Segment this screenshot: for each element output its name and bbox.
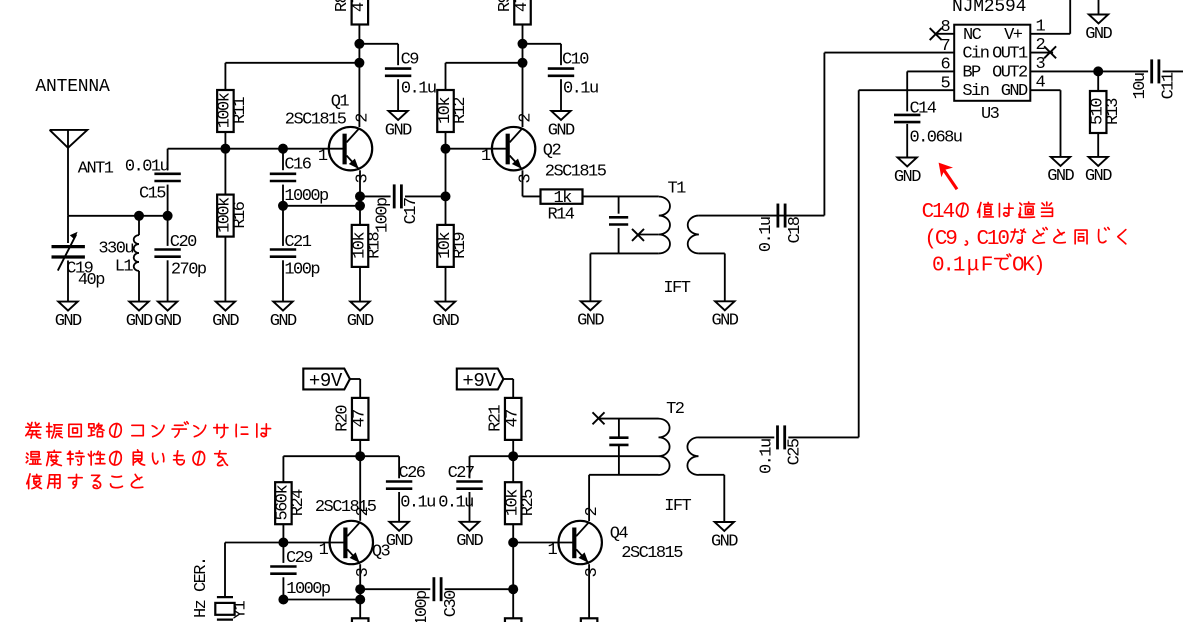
svg-text:1000p: 1000p: [284, 187, 329, 206]
svg-text:GND: GND: [270, 312, 297, 331]
svg-text:2: 2: [1035, 36, 1044, 55]
svg-text:μ: μ: [967, 254, 980, 277]
svg-text:R20: R20: [334, 405, 353, 432]
svg-text:0.1u: 0.1u: [757, 217, 776, 252]
svg-text:GND: GND: [385, 121, 412, 140]
svg-text:C10: C10: [562, 50, 589, 69]
svg-text:L1: L1: [115, 257, 134, 276]
svg-text:GND: GND: [712, 312, 739, 331]
svg-text:NJM2594: NJM2594: [952, 0, 1026, 17]
svg-text:3: 3: [583, 567, 602, 577]
svg-text:GND: GND: [154, 312, 181, 331]
svg-text:+9V: +9V: [462, 370, 496, 392]
svg-text:T1: T1: [668, 179, 687, 198]
svg-text:0.1u: 0.1u: [563, 79, 598, 98]
svg-text:C20: C20: [170, 233, 197, 252]
svg-text:8: 8: [940, 18, 950, 37]
svg-text:47: 47: [504, 410, 523, 428]
svg-text:GND: GND: [55, 312, 82, 331]
svg-text:BP: BP: [962, 63, 981, 82]
svg-text:1: 1: [953, 254, 966, 277]
svg-text:0.1u: 0.1u: [438, 493, 473, 512]
svg-text:Hz CER.: Hz CER.: [192, 557, 211, 618]
svg-text:1: 1: [1035, 17, 1045, 36]
svg-text:1: 1: [318, 147, 328, 166]
svg-text:Y1: Y1: [232, 601, 251, 620]
svg-text:IFT: IFT: [664, 497, 691, 516]
svg-text:GND: GND: [1085, 167, 1112, 186]
svg-text:4: 4: [1035, 74, 1045, 93]
svg-text:GND: GND: [548, 121, 575, 140]
svg-text:100p: 100p: [413, 590, 432, 622]
svg-text:GND: GND: [126, 312, 153, 331]
svg-text:C25: C25: [786, 438, 805, 465]
svg-text:U3: U3: [981, 105, 1000, 124]
svg-text:C11: C11: [1160, 72, 1179, 99]
svg-text:Q4: Q4: [610, 524, 629, 543]
svg-text:Q1: Q1: [331, 92, 350, 111]
svg-text:10u: 10u: [1131, 73, 1150, 99]
svg-text:GND: GND: [1047, 167, 1074, 186]
svg-text:IFT: IFT: [663, 279, 690, 298]
svg-text:0.1u: 0.1u: [758, 439, 777, 474]
svg-text:F: F: [981, 254, 994, 277]
svg-text:0.1u: 0.1u: [400, 493, 435, 512]
svg-text:1: 1: [481, 147, 491, 166]
svg-text:Q2: Q2: [543, 142, 561, 161]
svg-text:C9: C9: [401, 50, 420, 69]
svg-text:R12: R12: [451, 98, 470, 124]
svg-text:GND: GND: [432, 312, 459, 331]
svg-text:3: 3: [353, 173, 372, 183]
svg-text:4: 4: [942, 201, 955, 224]
svg-text:2SC1815: 2SC1815: [285, 110, 347, 129]
svg-text:R11: R11: [231, 97, 250, 124]
svg-text:C26: C26: [399, 464, 426, 483]
svg-text:0.1u: 0.1u: [401, 79, 436, 98]
svg-text:Q3: Q3: [372, 543, 391, 562]
svg-text:R24: R24: [289, 489, 308, 516]
svg-text:GND: GND: [1085, 25, 1112, 44]
svg-text:GND: GND: [212, 312, 239, 331]
svg-text:ANT1: ANT1: [78, 160, 114, 179]
svg-text:0.068u: 0.068u: [910, 129, 962, 148]
svg-text:C14: C14: [910, 100, 937, 119]
svg-text:330u: 330u: [98, 240, 133, 259]
svg-text:47: 47: [351, 410, 370, 428]
svg-text:C15: C15: [139, 185, 166, 204]
svg-text:2SC1815: 2SC1815: [621, 544, 683, 563]
svg-text:270p: 270p: [171, 260, 207, 279]
svg-text:2: 2: [583, 508, 602, 517]
svg-text:C17: C17: [402, 198, 421, 224]
svg-text:C27: C27: [448, 464, 474, 483]
svg-text:OUT1: OUT1: [992, 45, 1028, 64]
svg-text:47: 47: [350, 0, 369, 12]
svg-text:Sin: Sin: [962, 82, 988, 101]
svg-text:100p: 100p: [373, 197, 392, 233]
svg-text:2SC1815: 2SC1815: [315, 498, 377, 517]
svg-text:9: 9: [945, 228, 958, 251]
svg-text:C18: C18: [786, 216, 805, 243]
svg-text:1000p: 1000p: [286, 580, 331, 599]
svg-text:R9: R9: [496, 0, 515, 12]
svg-text:R13: R13: [1104, 98, 1123, 125]
svg-text:C30: C30: [442, 590, 461, 617]
svg-text:R19: R19: [451, 232, 470, 259]
svg-text:GND: GND: [347, 312, 374, 331]
svg-text:GND: GND: [711, 532, 738, 551]
svg-text:Cin: Cin: [962, 45, 988, 64]
svg-text:GND: GND: [456, 532, 483, 551]
svg-text:3: 3: [1035, 55, 1045, 74]
svg-text:C16: C16: [284, 156, 311, 175]
svg-text:GND: GND: [577, 312, 604, 331]
svg-text:R25: R25: [519, 489, 538, 516]
svg-text:OUT2: OUT2: [992, 63, 1027, 82]
svg-text:2: 2: [353, 114, 372, 123]
svg-text:R16: R16: [231, 201, 250, 228]
svg-text:+9V: +9V: [309, 370, 343, 392]
svg-text:5: 5: [940, 75, 950, 94]
svg-text:GND: GND: [386, 532, 413, 551]
svg-text:7: 7: [940, 37, 949, 56]
svg-text:6: 6: [940, 56, 950, 75]
svg-text:): ): [1033, 254, 1046, 277]
svg-text:2: 2: [516, 114, 535, 123]
svg-text:R18: R18: [366, 232, 385, 259]
svg-text:47: 47: [513, 0, 532, 12]
svg-text:R8: R8: [333, 0, 352, 12]
svg-text:R21: R21: [487, 405, 506, 432]
svg-text:1: 1: [319, 541, 329, 560]
svg-text:0.01u: 0.01u: [125, 158, 169, 177]
svg-text:40p: 40p: [78, 271, 105, 290]
svg-text:C29: C29: [286, 549, 313, 568]
svg-text:1: 1: [548, 541, 558, 560]
svg-text:T2: T2: [666, 400, 684, 419]
svg-text:2SC1815: 2SC1815: [545, 163, 607, 182]
svg-text:100p: 100p: [284, 260, 320, 279]
svg-text:0: 0: [997, 228, 1010, 251]
svg-text:V+: V+: [1004, 26, 1023, 45]
svg-text:NC: NC: [963, 26, 982, 45]
svg-text:3: 3: [516, 173, 535, 183]
svg-text:C21: C21: [284, 233, 311, 252]
svg-text:GND: GND: [1001, 82, 1028, 101]
svg-text:R14: R14: [548, 205, 575, 224]
svg-text:ANTENNA: ANTENNA: [35, 77, 110, 97]
svg-text:GND: GND: [894, 168, 921, 187]
svg-text:3: 3: [354, 567, 373, 577]
